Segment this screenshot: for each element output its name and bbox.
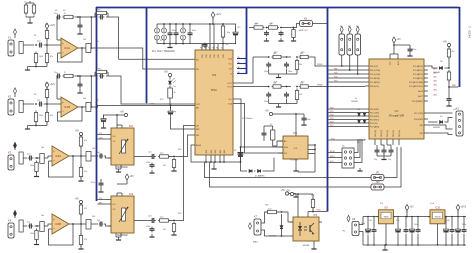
wire — [26, 1, 34, 20]
IC3 pin left IN1 — [196, 60, 199, 62]
svg-text:100k: 100k — [39, 115, 43, 117]
svg-text:C30: C30 — [368, 220, 371, 222]
wire — [448, 58, 450, 69]
wire — [0, 0, 1, 1]
capacitor C6 100n — [174, 24, 179, 44]
IC3 pin left REF — [196, 129, 200, 131]
ground — [78, 246, 83, 249]
wire S2 down — [349, 55, 351, 71]
resistor R31 — [311, 194, 314, 210]
bus stub IC3 p3 — [237, 68, 247, 70]
svg-text:4k7: 4k7 — [163, 229, 166, 231]
svg-text:PCF8583: PCF8583 — [290, 160, 298, 162]
svg-text:PD6 (MOSI): PD6 (MOSI) — [370, 78, 380, 80]
svg-text:PB1: PB1 — [420, 125, 423, 127]
net label MIDI OUT — [299, 30, 309, 32]
shield symbol — [340, 26, 343, 34]
svg-text:100n: 100n — [172, 30, 176, 32]
svg-text:IC3: IC3 — [212, 73, 217, 77]
ref labels — [34, 23, 434, 218]
node1 ch2 — [35, 103, 37, 105]
wire — [78, 106, 82, 108]
IC3 pin left MB — [196, 108, 199, 110]
IC2 pin AVCC — [397, 54, 400, 65]
capacitor rc1a — [264, 31, 269, 37]
resistor pot out — [158, 155, 170, 158]
connector K4 — [8, 219, 14, 239]
IC2 bottom pin 1 — [375, 130, 377, 145]
capacitor C5 100n — [168, 24, 176, 44]
wire bus to K5 0 — [328, 152, 342, 154]
IC3 pin right SDA — [228, 103, 232, 106]
label IC types — [152, 50, 175, 53]
wire — [0, 0, 1, 1]
svg-text:22p: 22p — [388, 159, 391, 161]
svg-text:PB7 (X2): PB7 (X2) — [375, 130, 377, 137]
svg-text:PC2 (ADC2): PC2 (ADC2) — [413, 73, 423, 76]
svg-text:IC1, IC4 = TS912AIN: IC1, IC4 = TS912AIN — [152, 50, 175, 53]
diode D4 — [363, 113, 366, 116]
psu top rail — [363, 216, 466, 218]
IC3 top pin 1 — [200, 44, 204, 58]
resistor rA1 — [272, 53, 283, 59]
wire feedback loop ch3 — [49, 156, 74, 177]
net label right pin — [434, 75, 438, 78]
jumper JP2 — [371, 181, 384, 190]
svg-text:+5V: +5V — [129, 175, 134, 178]
IC9 voltage regulator 7805 — [377, 207, 396, 245]
diode D6b — [363, 120, 366, 123]
current source 2a — [162, 24, 167, 44]
wire gnd rail ch2 — [28, 125, 48, 127]
svg-text:R19: R19 — [301, 52, 304, 54]
svg-text:100n: 100n — [264, 101, 268, 103]
net label bus pin — [238, 62, 241, 64]
svg-text:PC5 (ADC5/SCL): PC5 (ADC5/SCL) — [409, 85, 423, 88]
wire bus to pin — [328, 126, 365, 128]
IC2 pin PD6 (MOSI) — [365, 78, 380, 80]
node2 ch2 — [44, 103, 58, 105]
wire — [377, 153, 391, 156]
capacitor C in ch1 — [37, 41, 43, 48]
svg-text:R10: R10 — [160, 99, 163, 101]
node — [266, 27, 268, 29]
svg-text:C21: C21 — [453, 109, 456, 111]
wire — [69, 155, 73, 157]
svg-text:PD3 (INT1): PD3 (INT1) — [370, 120, 379, 122]
resistor bridge ch1 — [95, 11, 108, 17]
ground — [101, 125, 106, 128]
wire — [35, 157, 38, 159]
capacitor fbgnd ch2 — [78, 75, 83, 88]
wire feedback loop ch2 — [58, 107, 83, 121]
+5V arrow psu2 — [456, 205, 467, 213]
junction — [411, 216, 413, 246]
capacitor C41 — [450, 217, 455, 246]
net label — [330, 118, 334, 120]
wire out B — [310, 86, 365, 88]
svg-text:PD4 (T0): PD4 (T0) — [370, 123, 378, 125]
+5V circle LED — [164, 71, 172, 77]
wire — [445, 118, 453, 123]
svg-text:R1: R1 — [34, 35, 36, 37]
svg-text:C8: C8 — [96, 100, 98, 102]
resistor R1 — [24, 3, 27, 17]
input shield symbol ch1 — [14, 29, 17, 38]
svg-text:PD0: PD0 — [330, 107, 334, 109]
svg-text:PC6 (RESET): PC6 (RESET) — [412, 101, 424, 103]
svg-text:10k: 10k — [41, 215, 44, 217]
current source 1a — [155, 28, 160, 33]
wire — [0, 0, 1, 1]
svg-text:100n: 100n — [91, 182, 95, 184]
svg-text:100: 100 — [92, 148, 95, 150]
svg-text:PWM1: PWM1 — [317, 64, 323, 66]
resistor out ch3 — [86, 152, 95, 162]
capacitor rc1b — [279, 31, 284, 37]
net label pot2 b — [99, 202, 103, 204]
IC5 pin right 2 — [308, 149, 316, 151]
svg-text:+: + — [62, 42, 64, 46]
wire JP1 right — [384, 150, 397, 178]
pot pin in — [108, 157, 111, 159]
wire ch1 vref corner — [108, 17, 195, 59]
svg-text:PD7 (MISO): PD7 (MISO) — [370, 82, 380, 84]
IC2 pin PD1 (TXD) r — [414, 113, 428, 115]
wire — [289, 193, 294, 195]
svg-text:AVCC: AVCC — [397, 60, 400, 65]
svg-text:PC4 (ADC4/SDA): PC4 (ADC4/SDA) — [409, 81, 424, 84]
op-amp IC4B — [52, 214, 69, 234]
connector K6 power — [342, 217, 359, 236]
wire — [273, 113, 304, 115]
svg-text:MIDI OUT: MIDI OUT — [299, 30, 309, 32]
resistor pot shunt — [172, 222, 175, 233]
op-amp IC1A — [61, 38, 78, 58]
resistor bias out dn ch3 — [79, 156, 82, 179]
wire rc1 left — [249, 27, 253, 29]
svg-text:+5V2: +5V2 — [460, 206, 466, 209]
resistor R6 — [168, 88, 176, 106]
svg-text:R29: R29 — [265, 205, 268, 207]
bus stub IC3 SCL — [237, 63, 247, 65]
wire gnd rail ch1 — [28, 66, 48, 68]
net label right pin — [434, 67, 438, 70]
wire rail bottom — [157, 43, 236, 45]
wire to bus right — [449, 86, 458, 88]
label 2x BAT85 — [255, 175, 265, 178]
net label bus pin — [238, 57, 241, 59]
node — [80, 223, 82, 225]
svg-text:−: − — [53, 159, 55, 163]
svg-text:47k: 47k — [84, 140, 87, 142]
svg-text:1N4148: 1N4148 — [433, 127, 440, 129]
ground — [25, 126, 30, 130]
svg-text:47k: 47k — [84, 208, 87, 210]
wire rail B — [269, 103, 297, 105]
wire JP2 right — [384, 150, 401, 187]
wire — [313, 23, 328, 25]
resistor series ch4 — [37, 222, 48, 232]
resistor bias out up ch4 — [79, 203, 82, 224]
capacitor rB1 — [264, 92, 271, 104]
node — [283, 56, 292, 58]
current source 2b — [162, 35, 167, 40]
wire IC5 gnd — [293, 159, 298, 171]
svg-text:SCL: SCL — [229, 99, 233, 101]
svg-text:2µ2: 2µ2 — [97, 152, 100, 154]
wire — [428, 112, 453, 114]
net label mute — [151, 103, 155, 105]
resistor series ch3 — [37, 154, 48, 164]
svg-text:+12V: +12V — [215, 13, 221, 16]
current source 3a — [181, 24, 186, 44]
IC3 bottom pin 4 — [219, 149, 222, 163]
wire JP bus upper — [205, 162, 372, 178]
net label right pin — [434, 71, 438, 74]
IC3 top pin 5 — [216, 44, 220, 58]
net label K5 0 — [330, 151, 335, 153]
svg-text:PD2: PD2 — [330, 114, 334, 116]
wire — [78, 47, 82, 49]
wire blue2 end hook — [146, 102, 148, 103]
wire — [281, 27, 294, 29]
node — [80, 155, 82, 157]
svg-text:220: 220 — [311, 195, 314, 197]
svg-text:PB6 (ICP): PB6 (ICP) — [370, 66, 378, 68]
svg-text:7805: 7805 — [384, 216, 390, 218]
svg-text:A0: A0 — [284, 140, 286, 143]
resistor out ch2 — [82, 103, 95, 112]
capacitor rA1 — [264, 62, 271, 74]
svg-text:2x BAT85: 2x BAT85 — [255, 175, 265, 178]
wire — [312, 208, 314, 212]
bus vertical third — [246, 7, 248, 74]
connector K7 MIDI — [253, 215, 261, 244]
IC3 top pin 6 — [221, 44, 225, 58]
IC2 bottom pin 4 — [393, 130, 395, 145]
wire JP bus lower — [210, 162, 372, 187]
svg-text:ATmega8 16PI: ATmega8 16PI — [389, 115, 405, 118]
svg-text:26: 26 — [208, 47, 210, 49]
wire S1 down — [341, 55, 343, 67]
svg-text:K3: K3 — [8, 151, 12, 155]
wire — [457, 211, 459, 217]
wire bus to pin — [328, 119, 365, 121]
wire SCL drop — [233, 104, 283, 154]
net label RXD — [317, 210, 322, 212]
wire — [0, 0, 1, 1]
capacitor rA2 — [284, 62, 292, 74]
IC3 pin wire A — [233, 57, 253, 83]
svg-text:IC10: IC10 — [430, 203, 434, 205]
resistor shunt in ch2 — [34, 111, 37, 126]
svg-text:K1: K1 — [8, 36, 12, 40]
svg-text:+5V: +5V — [265, 110, 270, 113]
wire — [171, 117, 196, 130]
svg-text:IC4A: IC4A — [55, 154, 61, 158]
node out ch4 — [72, 223, 74, 225]
wire — [169, 220, 181, 222]
svg-text:32.768kHz: 32.768kHz — [242, 118, 252, 120]
diode D5 BAT85 — [249, 170, 252, 173]
bus vertical right edge — [459, 7, 461, 87]
jumper K8 — [300, 17, 313, 26]
svg-text:PB7 (X2): PB7 (X2) — [387, 130, 389, 137]
svg-text:27: 27 — [204, 47, 206, 49]
wire bus to pin — [328, 77, 365, 79]
resistor out ch4 — [86, 220, 95, 230]
svg-text:PB7: PB7 — [334, 68, 337, 70]
capacitor rB2 — [284, 92, 289, 104]
svg-text:100: 100 — [83, 39, 86, 41]
svg-text:PB7 (OC1A): PB7 (OC1A) — [370, 69, 380, 72]
capacitor ch4 coupling — [97, 220, 103, 227]
IC2 pin PC4 (ADC4/SDA) — [409, 81, 428, 84]
IC2 bottom pin 3 — [387, 130, 389, 145]
pot pin bottom 2 — [116, 165, 121, 172]
wire — [48, 156, 52, 158]
bus vertical fourth — [327, 7, 329, 212]
ground — [276, 104, 281, 108]
svg-text:28: 28 — [200, 47, 202, 49]
wire — [448, 87, 450, 97]
svg-text:100n: 100n — [146, 226, 150, 228]
label 2x 1N4148 — [351, 98, 358, 103]
svg-text:R17: R17 — [270, 23, 273, 25]
wire — [294, 24, 300, 28]
capacitor pot gnd — [150, 163, 155, 169]
wire ch1 in — [23, 44, 34, 46]
IC2 pin PC6 (RESET) — [412, 101, 428, 103]
wire ch2 out to IC3 — [95, 105, 195, 107]
+5V circle r — [443, 41, 451, 47]
IC3 bottom rail — [194, 161, 241, 163]
wire ch3 in — [23, 157, 27, 159]
node out ch3 — [72, 155, 74, 157]
wire vdd drop 2 — [213, 24, 215, 50]
IC5 pin left 1 — [279, 140, 287, 143]
svg-text:MAX5402: MAX5402 — [117, 166, 128, 169]
IC3 pin left AGND — [196, 144, 202, 147]
wire — [308, 212, 328, 218]
svg-text:25: 25 — [212, 47, 214, 49]
svg-text:PD0 (RXD): PD0 (RXD) — [414, 119, 423, 121]
label 1N4148 c — [433, 127, 440, 129]
IC2 pin PD4 (T0) — [365, 123, 378, 125]
input shield symbol ch2 — [14, 88, 17, 97]
ground — [446, 102, 451, 106]
pot pin bottom 1 — [115, 165, 117, 169]
wire — [448, 81, 450, 88]
svg-text:R24: R24 — [178, 149, 181, 151]
current source 3b — [181, 35, 186, 40]
wire top vcc rail — [390, 53, 398, 55]
wire K5 right 1 — [354, 139, 360, 158]
svg-text:IC1B: IC1B — [64, 105, 70, 109]
wire fb left drop ch2 — [57, 76, 61, 99]
svg-text:100n: 100n — [306, 119, 310, 121]
svg-text:1N4148: 1N4148 — [433, 72, 440, 74]
svg-text:+12V: +12V — [49, 83, 55, 86]
svg-text:R16: R16 — [255, 23, 258, 25]
IC2 pin PB2 r — [420, 133, 428, 135]
resistor bias out dn ch4 — [79, 224, 82, 247]
junction — [373, 216, 375, 246]
svg-text:K4: K4 — [8, 219, 12, 223]
capacitor ch3 coupling — [97, 152, 103, 159]
svg-text:PB7 (X2): PB7 (X2) — [399, 130, 401, 137]
svg-text:100n: 100n — [192, 30, 196, 32]
svg-text:040305 - 11: 040305 - 11 — [470, 25, 472, 38]
capacitor pot out — [150, 154, 156, 159]
IC4 digital potentiometer — [111, 124, 134, 169]
IC2 pin ADC7 — [418, 95, 428, 98]
svg-text:IC2: IC2 — [395, 110, 399, 113]
wire ch4 to pot — [95, 223, 98, 225]
wire — [212, 19, 214, 25]
IC2 ATmega8 body — [369, 59, 424, 139]
junction — [445, 216, 447, 246]
svg-text:IN2: IN2 — [196, 69, 199, 71]
ground — [382, 245, 387, 250]
net label K5 2 — [330, 161, 334, 163]
svg-text:PV1: PV1 — [211, 88, 217, 92]
wire — [0, 0, 1, 1]
svg-text:C32: C32 — [396, 220, 399, 222]
IC3 pin right IO — [230, 74, 232, 76]
bus vertical left — [96, 7, 98, 201]
IC3 audio processor body — [195, 50, 233, 155]
bus stub IC3 SDA — [237, 58, 247, 60]
node out ch2 — [81, 106, 83, 108]
capacitor bridge ch2 — [95, 74, 108, 79]
junction — [405, 216, 407, 246]
bus top horizontal — [96, 7, 460, 9]
capacitor C33 — [404, 217, 409, 246]
wire bus to pin — [328, 73, 365, 75]
input shield symbol ch4 — [14, 210, 17, 218]
label — [160, 153, 164, 155]
svg-text:100n: 100n — [414, 224, 418, 226]
capacitor C in ch3 — [27, 154, 33, 161]
IC5 RTC — [283, 132, 308, 159]
jack body ch4 — [19, 220, 23, 232]
wire feedback riser ch2 — [90, 75, 92, 108]
junction — [417, 216, 419, 246]
resistor rBv — [295, 86, 302, 104]
net label RXD1 — [452, 85, 457, 87]
svg-text:1k: 1k — [174, 92, 176, 94]
svg-text:PWM2: PWM2 — [317, 85, 323, 87]
wire IC5 vcc — [295, 114, 297, 136]
net label — [330, 114, 334, 116]
wire pot2 ctl — [97, 200, 111, 205]
capacitor C18 22p — [375, 145, 380, 154]
pot pin top — [117, 193, 122, 196]
capacitor C43 — [462, 217, 467, 246]
capacitor C22 100n — [387, 145, 394, 154]
svg-text:PD4: PD4 — [331, 138, 335, 140]
svg-text:PD7: PD7 — [330, 125, 334, 127]
op-amp IC1B — [61, 97, 78, 117]
+5V circle — [265, 110, 273, 116]
svg-text:C4: C4 — [96, 41, 98, 43]
capacitor C in ch2 — [37, 100, 43, 107]
svg-text:10k: 10k — [41, 147, 44, 149]
wire — [75, 75, 95, 77]
svg-text:MOSI: MOSI — [330, 151, 335, 153]
